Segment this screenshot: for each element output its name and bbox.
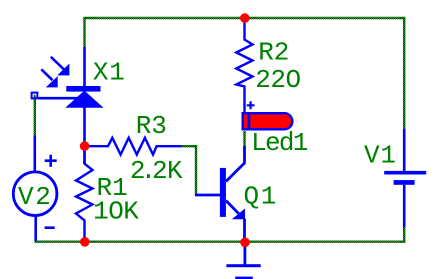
led Led1 plus sign [247, 101, 255, 109]
svg-text:Led1: Led1 [251, 128, 308, 158]
source V2 plus sign [45, 155, 57, 167]
svg-text:1OK: 1OK [93, 197, 139, 227]
svg-text:2.2K: 2.2K [130, 156, 183, 186]
transistor Q1 base bar [220, 168, 226, 217]
transistor Q1 base lead [195, 194, 226, 197]
transistor Q1 emitter lead to ground node [243, 219, 246, 243]
battery V1 short plate [394, 180, 415, 185]
svg-text:X1: X1 [93, 58, 126, 88]
source V2 top lead [33, 136, 36, 172]
wire top bus [85, 18, 405, 129]
svg-text:V1: V1 [364, 140, 397, 170]
transistor Q1 emitter [226, 201, 241, 217]
led Led1 body [243, 113, 293, 129]
ground bar 1 [226, 264, 260, 267]
resistor R3 [87, 138, 182, 155]
resistor R1 [76, 146, 93, 242]
ground lead [243, 242, 246, 266]
battery V1 bottom lead [403, 185, 406, 227]
photodiode X1 leads [38, 47, 85, 164]
battery V1 long plate [384, 171, 426, 175]
svg-text:Q1: Q1 [244, 181, 278, 211]
junction dot top [240, 13, 250, 23]
junction dot ground [240, 238, 250, 248]
resistor R2 [236, 18, 252, 114]
source V2 minus sign [45, 226, 55, 229]
junction dot R3/R1 [80, 141, 90, 151]
battery V1 top lead [403, 129, 406, 171]
photodiode X1 light arrow 2 [41, 69, 57, 87]
photodiode X1 cathode bar [66, 86, 100, 92]
wire Led1 to Q1 collector [243, 131, 245, 147]
wire bottom bus [36, 217, 405, 242]
source V2 circle [13, 172, 57, 216]
transistor Q1 collector [226, 146, 245, 182]
led Led1 cathode bar [248, 114, 251, 129]
svg-text:22O: 22O [255, 65, 300, 95]
source V2 bottom lead [34, 216, 37, 241]
junction dot bottom left [80, 237, 90, 247]
photodiode X1 light arrow 1 [51, 57, 69, 75]
svg-text:R2: R2 [258, 37, 289, 67]
wire R3 to Q1 base [181, 146, 196, 195]
ground bar 2 [235, 277, 253, 279]
node terminal square pin [32, 93, 38, 99]
svg-text:V2: V2 [18, 182, 52, 212]
photodiode X1 triangle [67, 92, 101, 107]
transistor Q1 emitter arrowhead [233, 209, 245, 219]
wire V2 top to node square [34, 96, 36, 136]
svg-text:R3: R3 [136, 111, 167, 141]
